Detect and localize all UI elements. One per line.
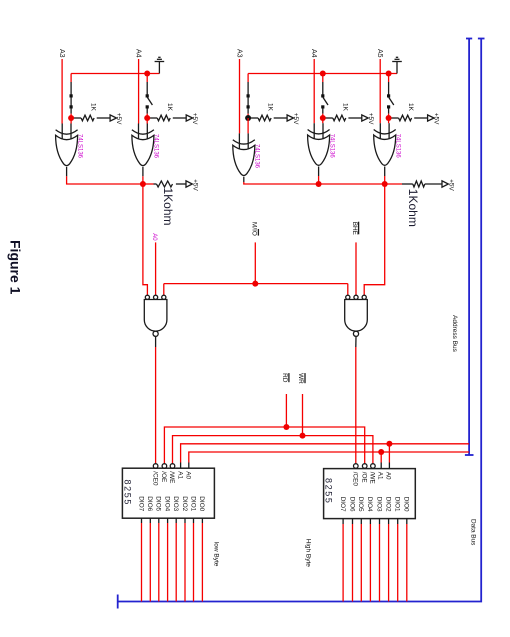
junction S4/R4 xyxy=(320,115,326,121)
junction RD/OE line xyxy=(283,424,289,430)
switch S2 (open) xyxy=(146,74,153,119)
svg-text:RD: RD xyxy=(281,373,288,383)
svg-text:DIO1: DIO1 xyxy=(394,497,401,512)
junction S1/R1 xyxy=(68,115,74,121)
XOR gate U4 74LS136 xyxy=(308,123,330,165)
wire A3 to U3 xyxy=(239,59,241,133)
svg-text:/OE: /OE xyxy=(360,472,367,483)
svg-text:A1: A1 xyxy=(176,471,183,479)
svg-text:8255: 8255 xyxy=(122,480,132,506)
ground G1 xyxy=(155,57,165,73)
svg-text:DIO4: DIO4 xyxy=(366,497,373,512)
svg-text:1K: 1K xyxy=(90,103,97,112)
resistor R4 1K xyxy=(325,113,373,125)
svg-text:A5: A5 xyxy=(376,49,383,58)
svg-text:8255: 8255 xyxy=(324,478,334,504)
svg-text:A4: A4 xyxy=(310,49,317,58)
chip U9 8255 (high byte) xyxy=(324,463,416,519)
wire A1 line from address bus xyxy=(181,444,470,463)
svg-text:/CE0: /CE0 xyxy=(352,472,359,487)
svg-text:A4: A4 xyxy=(135,49,142,58)
svg-text:DIO6: DIO6 xyxy=(146,496,153,511)
wire U3 output xyxy=(243,177,245,182)
chip U9 DIO stubs and wires to data bus xyxy=(343,519,407,602)
svg-text:Address Bus: Address Bus xyxy=(451,315,458,353)
wire WR xyxy=(302,394,304,436)
BHE overline xyxy=(358,222,360,235)
wire A0 line from address bus xyxy=(189,452,469,463)
svg-text:DIO7: DIO7 xyxy=(339,497,346,512)
wire to chip2 A1 pin xyxy=(380,452,382,463)
svg-text:74LS136: 74LS136 xyxy=(328,134,334,159)
wire A3 to U1 xyxy=(61,59,63,124)
svg-text:A3: A3 xyxy=(58,49,65,58)
wire S3 to U3 xyxy=(247,118,249,133)
svg-text:/WE: /WE xyxy=(168,471,175,483)
junction A0 line to chip2 A1 xyxy=(378,449,384,455)
svg-text:DIO1: DIO1 xyxy=(189,496,196,511)
svg-text:DIO3: DIO3 xyxy=(375,497,382,512)
junction U4 output xyxy=(316,181,322,187)
wire U6 output xyxy=(155,337,157,347)
junction WR/WE line xyxy=(300,433,306,439)
junction rail2/S5 xyxy=(386,71,392,77)
M/IO - A0 shared trunk xyxy=(164,283,348,285)
pull-up resistor R7 1Kohm xyxy=(385,179,455,191)
switch S1 (closed) xyxy=(70,74,73,119)
resistor R5 1K xyxy=(391,113,439,125)
resistor R2 1K xyxy=(150,113,198,125)
ground rail group 1 xyxy=(71,73,159,75)
wire trunk to U7 bottom input xyxy=(347,284,349,296)
junction S3/R3 (black) xyxy=(245,115,251,121)
M/IO overline xyxy=(257,229,259,236)
wire S5 to U5 xyxy=(388,118,390,123)
svg-text:High Byte: High Byte xyxy=(305,539,312,568)
svg-text:Figure 1: Figure 1 xyxy=(8,240,24,295)
wire OE line (RD to both chips) xyxy=(164,427,364,464)
svg-text:1Kohm: 1Kohm xyxy=(406,189,420,227)
wire A4 to U4 xyxy=(313,59,315,123)
XOR gate U2 74LS136 xyxy=(132,124,154,166)
junction U5 output xyxy=(382,181,388,187)
address bus left end cap xyxy=(466,38,472,40)
wire U6 output to CS1 xyxy=(155,347,157,464)
svg-text:BHE: BHE xyxy=(351,222,358,235)
junction S5/R5 xyxy=(386,115,392,121)
wired-AND rail group2 outputs xyxy=(244,182,385,184)
wired-AND rail group1 outputs xyxy=(67,176,143,184)
wire group1 node to U6 input xyxy=(143,184,148,295)
svg-text:A0: A0 xyxy=(385,472,392,480)
NAND gate U6 xyxy=(144,295,167,336)
wire U7 output to CS2 xyxy=(355,347,357,464)
wire U4 output to rail xyxy=(318,176,320,184)
svg-text:DIO6: DIO6 xyxy=(348,497,355,512)
NAND gate U7 xyxy=(345,295,368,336)
wire group2 node to U7 top input xyxy=(364,184,385,295)
svg-text:A3: A3 xyxy=(236,49,243,58)
svg-text:DIO0: DIO0 xyxy=(403,497,410,512)
data bus bottom end cap xyxy=(117,595,119,609)
wire WE line (WR to both chips) xyxy=(173,436,373,464)
svg-text:DIO0: DIO0 xyxy=(198,496,205,511)
wire A4 to U2 xyxy=(138,59,140,124)
wire U1 output xyxy=(66,167,68,177)
data bus left end cap xyxy=(478,38,485,40)
wire S2 to U2 xyxy=(146,118,148,124)
svg-text:DIO2: DIO2 xyxy=(384,497,391,512)
ground G2 xyxy=(392,57,402,73)
op XOR gate U1 74LS136 xyxy=(56,124,78,166)
junction rail1/S2 xyxy=(144,71,150,77)
svg-text:M/IO: M/IO xyxy=(251,222,258,236)
switch S5 (open) xyxy=(387,74,394,119)
svg-text:1K: 1K xyxy=(341,103,348,112)
pull-up resistor R6 1Kohm xyxy=(143,179,199,191)
svg-text:74LS136: 74LS136 xyxy=(254,144,260,169)
svg-text:WR: WR xyxy=(297,373,304,384)
svg-text:1K: 1K xyxy=(166,103,173,112)
wire U5 output xyxy=(384,167,386,177)
svg-text:74LS136: 74LS136 xyxy=(76,134,82,159)
wire RD xyxy=(285,394,287,427)
RD overline xyxy=(288,373,290,382)
svg-text:DIO7: DIO7 xyxy=(137,496,144,511)
svg-text:DIO2: DIO2 xyxy=(181,496,188,511)
svg-text:1K: 1K xyxy=(407,103,414,112)
svg-text:+5V: +5V xyxy=(192,179,199,191)
junction U1/U2 outputs xyxy=(140,181,146,187)
svg-text:DIO5: DIO5 xyxy=(155,496,162,511)
wire BHE to U7 xyxy=(355,242,357,295)
junction S2/R2 xyxy=(144,115,150,121)
svg-text:Data Bus: Data Bus xyxy=(470,519,477,545)
svg-text:74LS136: 74LS136 xyxy=(153,134,159,159)
ground rail group 2 xyxy=(248,73,397,75)
wire U2 output to rail xyxy=(142,176,144,184)
svg-text:/OE: /OE xyxy=(160,471,167,482)
junction rail2/S4 xyxy=(320,71,326,77)
junction A1 line to chip2 A0 xyxy=(386,441,392,447)
wire to chip2 A0 pin xyxy=(388,444,390,463)
svg-text:/CE0: /CE0 xyxy=(151,471,158,486)
XOR gate U3 74LS136 xyxy=(233,133,255,175)
svg-text:DIO3: DIO3 xyxy=(172,496,179,511)
wire U5 output to rail xyxy=(384,176,386,184)
WR overline xyxy=(304,373,306,383)
chip U8 DIO stubs and wires to data bus xyxy=(142,518,203,601)
svg-text:1Kohm: 1Kohm xyxy=(161,188,175,226)
svg-text:/WE: /WE xyxy=(368,472,375,484)
svg-text:A0: A0 xyxy=(185,471,192,479)
wire A5 to U5 xyxy=(379,59,381,123)
wire A0 to U6 xyxy=(155,242,157,295)
wire U2 output xyxy=(142,167,144,177)
switch S4 (open) xyxy=(321,74,328,119)
svg-text:+5V: +5V xyxy=(448,179,455,191)
wire S1 to U1 xyxy=(70,118,72,124)
XOR gate U5 74LS136 xyxy=(374,123,396,165)
resistor R3 1K xyxy=(251,113,299,125)
resistor R1 1K xyxy=(74,113,122,125)
svg-text:DIO4: DIO4 xyxy=(163,496,170,511)
wire M/IO xyxy=(254,242,256,283)
wire trunk to U6 top input xyxy=(163,284,165,296)
wire U4 output xyxy=(318,167,320,177)
svg-text:1K: 1K xyxy=(267,103,274,112)
wire S4 to U4 xyxy=(322,118,324,123)
switch S3 (closed) xyxy=(247,74,250,119)
svg-text:A0: A0 xyxy=(151,233,157,241)
svg-text:DIO5: DIO5 xyxy=(357,497,364,512)
data bus xyxy=(118,39,482,602)
svg-text:74LS136: 74LS136 xyxy=(394,134,400,159)
address bus xyxy=(468,39,470,456)
wire U7 output xyxy=(355,337,357,347)
junction M/IO trunk xyxy=(252,281,258,287)
svg-text:low Byte: low Byte xyxy=(213,542,220,567)
svg-text:A1: A1 xyxy=(377,472,384,480)
address bus right end cap xyxy=(465,454,474,456)
chip U8 8255 (low byte) xyxy=(122,463,214,519)
